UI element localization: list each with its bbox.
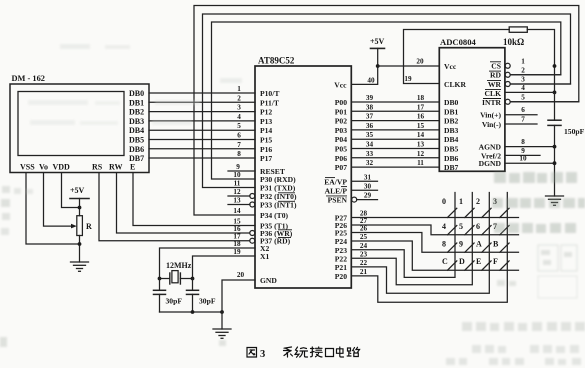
svg-text:10: 10	[519, 155, 527, 163]
keypad key labels row 2	[442, 222, 497, 231]
EA/VP stub U1 pin 31	[351, 180, 377, 182]
PSEN stub U1 pin 29	[357, 199, 378, 201]
svg-text:2: 2	[237, 94, 241, 102]
svg-text:10kΩ: 10kΩ	[503, 37, 524, 47]
U2 right pin numbers	[519, 57, 527, 162]
wire DB3 LCD to U1 pin 4	[149, 120, 255, 122]
svg-text:4: 4	[442, 222, 446, 231]
svg-text:P24: P24	[335, 237, 347, 246]
svg-text:P12: P12	[260, 108, 272, 117]
wire DB4 LCD to U1 pin 5	[149, 129, 255, 131]
svg-text:8: 8	[521, 138, 525, 146]
svg-text:Vcc: Vcc	[444, 62, 457, 71]
svg-text:6: 6	[521, 106, 525, 114]
keypad key E switch	[482, 261, 491, 270]
wire VSS to potentiometer bottom	[26, 173, 80, 244]
svg-text:P03: P03	[335, 126, 347, 135]
potentiometer wiper arrowhead	[71, 224, 77, 229]
capacitor C1 30pF plates	[154, 289, 166, 291]
wire VDD to +5V node	[62, 173, 80, 208]
wire ADC INTR pin 5	[510, 101, 579, 103]
svg-text:32: 32	[366, 159, 374, 167]
RESET stub U1 pin 9	[228, 170, 255, 172]
junction dot AGND	[553, 145, 557, 149]
wire ADC CLK pin 4	[505, 91, 555, 93]
svg-text:1: 1	[237, 85, 241, 93]
LCD screen inner box	[18, 92, 124, 156]
svg-text:30pF: 30pF	[199, 297, 216, 306]
svg-text:P14: P14	[260, 126, 272, 135]
wire ADC Vcc pin 20	[378, 65, 440, 67]
crystal Y1 12MHz leads	[160, 278, 170, 280]
svg-text:INTR: INTR	[482, 98, 502, 107]
net P31/TXD to ADC WR (nested wire 2)	[203, 14, 571, 188]
capacitor C3 150pF top lead	[554, 92, 556, 120]
keypad key 7 switch	[500, 226, 509, 235]
wire P24 to keypad row 4	[351, 241, 518, 270]
svg-text:P00: P00	[335, 98, 347, 107]
junction dot rail / GND wire	[220, 310, 224, 314]
keypad key D switch	[465, 261, 474, 270]
svg-text:0: 0	[442, 197, 446, 206]
wire U1 Vcc pin 40 to +5V	[351, 48, 377, 84]
svg-text:Vcc: Vcc	[334, 80, 347, 89]
svg-text:P33 (INT1): P33 (INT1)	[260, 201, 297, 210]
svg-text:F: F	[493, 257, 498, 266]
wire data bus D7	[351, 166, 439, 168]
caption glyph 系	[284, 347, 293, 357]
svg-text:R: R	[86, 222, 92, 231]
svg-text:26: 26	[360, 225, 368, 233]
U1 overlines EA ALE/P PSEN	[325, 178, 347, 196]
U2 left pin names	[444, 62, 466, 172]
U1 left pin names	[260, 89, 297, 285]
wire data bus D0 U1 P00 to ADC DB0	[351, 101, 439, 103]
svg-text:37: 37	[366, 113, 374, 121]
caption glyph 路	[347, 347, 359, 356]
svg-text:7: 7	[521, 116, 525, 124]
wire resistor to CLK net vertical	[527, 30, 554, 93]
junction dot crystal right	[191, 277, 195, 281]
wire data bus D4	[351, 138, 439, 140]
U1 right pin names	[324, 80, 347, 281]
wire U1 GND pin 20 to ground	[222, 280, 255, 329]
svg-text:DB5: DB5	[129, 136, 144, 145]
svg-text:ADC0804: ADC0804	[440, 37, 477, 47]
ADC U2 ADC0804 body	[439, 48, 505, 172]
wire data bus D6	[351, 157, 439, 159]
svg-text:9: 9	[521, 147, 525, 155]
keypad key 8 switch	[448, 243, 457, 252]
wire P20 to keypad column 4	[351, 193, 507, 303]
keypad key 3 switch	[500, 208, 509, 217]
U1 right pin numbers	[360, 76, 375, 276]
junction dot CLK pin 4	[553, 91, 557, 95]
+5V supply symbol (ADC side)	[371, 47, 385, 49]
wire data bus D2	[351, 120, 439, 122]
keypad key 5 switch	[465, 226, 474, 235]
ADC CS active-low bubble pin 1	[505, 63, 510, 68]
capacitor C1 bottom lead	[159, 294, 161, 312]
wire P26 to keypad row 2	[351, 225, 518, 235]
svg-text:DB4: DB4	[129, 126, 144, 135]
svg-text:Vin(-): Vin(-)	[482, 120, 502, 129]
svg-text:19: 19	[233, 248, 241, 256]
oscillator ground rail	[160, 311, 223, 313]
svg-text:7: 7	[237, 141, 241, 149]
caption glyph 统	[295, 347, 308, 357]
junction dot C2 on rail	[191, 310, 195, 314]
svg-text:5: 5	[521, 93, 525, 101]
svg-text:CLK: CLK	[485, 89, 502, 98]
svg-text:9: 9	[236, 163, 240, 171]
svg-text:P05: P05	[335, 145, 347, 154]
P33/INT1 stub U1 pin 13	[228, 204, 250, 206]
keypad key labels row 4	[442, 257, 498, 266]
svg-text:DB3: DB3	[444, 126, 459, 135]
keypad key labels row 1	[442, 197, 497, 206]
svg-text:18: 18	[417, 94, 425, 102]
svg-text:4: 4	[521, 84, 525, 92]
wire P25 to keypad row 3	[351, 233, 518, 253]
svg-text:RS: RS	[92, 163, 103, 172]
svg-text:12: 12	[233, 188, 241, 196]
svg-text:DB6: DB6	[129, 145, 144, 154]
svg-text:14: 14	[233, 207, 241, 215]
svg-text:35: 35	[366, 131, 374, 139]
svg-text:6: 6	[237, 132, 241, 140]
svg-text:11: 11	[234, 180, 241, 188]
svg-text:20: 20	[237, 271, 245, 279]
svg-text:RW: RW	[109, 163, 123, 172]
svg-text:A: A	[476, 240, 482, 249]
wire data bus D1	[351, 110, 439, 112]
capacitor C2 30pF top lead	[192, 279, 194, 291]
caption figure number glyph 图	[247, 348, 257, 358]
wire RS to U1 pin 17	[99, 173, 255, 241]
svg-text:8: 8	[442, 240, 446, 249]
svg-text:30pF: 30pF	[166, 297, 183, 306]
ADC RD active-low bubble pin 2	[505, 72, 510, 77]
keypad key 1 switch	[465, 208, 474, 217]
U2 left pin numbers	[404, 58, 424, 168]
svg-text:40: 40	[367, 76, 375, 84]
svg-text:DB0: DB0	[129, 89, 144, 98]
svg-text:6: 6	[476, 222, 480, 231]
junction dot +5V / ADC Vcc	[376, 64, 380, 68]
svg-text:38: 38	[366, 103, 374, 111]
svg-text:30: 30	[364, 182, 372, 190]
wire data bus D3	[351, 129, 439, 131]
svg-text:1: 1	[521, 57, 525, 65]
capacitor C2 bottom lead	[192, 294, 194, 312]
keypad key 6 switch	[482, 226, 491, 235]
wire X2 to crystal left	[160, 248, 256, 279]
svg-text:B: B	[493, 240, 499, 249]
svg-text:P01: P01	[335, 107, 347, 116]
svg-text:1: 1	[459, 197, 463, 206]
ALE/P stub U1 pin 30	[351, 189, 377, 191]
svg-text:E: E	[476, 257, 481, 266]
LCD pin labels DB0-DB7	[129, 89, 144, 163]
wire ADC CLKR pin 19 to 10k resistor	[404, 30, 510, 84]
ground symbol below oscillator	[213, 329, 231, 338]
ADC INTR active-low bubble pin 5	[505, 99, 510, 104]
svg-text:23: 23	[360, 250, 368, 258]
svg-text:15: 15	[417, 122, 425, 130]
crystal Y1 plates	[169, 273, 171, 284]
svg-text:16: 16	[417, 113, 425, 121]
keypad key B switch	[500, 243, 509, 252]
svg-text:150pF: 150pF	[564, 127, 585, 136]
svg-text:22: 22	[360, 259, 368, 267]
svg-text:19: 19	[404, 75, 412, 83]
svg-text:2: 2	[476, 197, 480, 206]
wire ADC Vin+ pin 6 stub	[505, 114, 537, 116]
PSEN active-low bubble	[352, 197, 357, 202]
U1 left pin numbers	[233, 85, 244, 279]
svg-text:E: E	[130, 163, 135, 172]
svg-text:25: 25	[360, 233, 368, 241]
svg-text:P10/T: P10/T	[260, 89, 279, 98]
keypad key A switch	[482, 243, 491, 252]
svg-text:3: 3	[260, 349, 265, 360]
wire P22 to keypad column 2	[351, 193, 472, 285]
svg-text:X1: X1	[260, 252, 269, 261]
svg-text:DB5: DB5	[444, 145, 459, 154]
+5V supply symbol (LCD side)	[70, 198, 89, 200]
svg-text:DB2: DB2	[129, 108, 144, 117]
svg-text:Vin(+): Vin(+)	[480, 111, 501, 120]
wire DB6 LCD to U1 pin 7	[149, 148, 255, 150]
wire P21 to keypad column 3	[351, 193, 489, 294]
svg-text:DB1: DB1	[129, 98, 144, 107]
svg-text:CS: CS	[491, 61, 501, 70]
svg-text:36: 36	[366, 122, 374, 130]
svg-text:39: 39	[366, 94, 374, 102]
svg-text:5: 5	[459, 222, 463, 231]
svg-text:24: 24	[360, 242, 368, 250]
wire DB0 LCD to U1 pin 1	[149, 92, 255, 94]
svg-text:3: 3	[521, 76, 525, 84]
net P30/RXD to ADC RD (nested wire 3)	[212, 22, 561, 179]
wire ADC Vref/2 pin 9 stub	[505, 154, 540, 156]
svg-text:GND: GND	[260, 276, 277, 285]
caption glyph 口	[326, 349, 334, 357]
wire Vo to potentiometer wiper	[44, 173, 73, 226]
svg-text:DM - 162: DM - 162	[12, 74, 46, 83]
svg-text:P21: P21	[335, 263, 347, 272]
caption glyph 接	[311, 347, 323, 357]
junction dot VDD/+5V/pot	[78, 206, 82, 210]
capacitor C1 30pF top lead	[159, 279, 161, 291]
svg-text:P17: P17	[260, 154, 272, 163]
keypad key F switch	[500, 261, 509, 270]
LCD bottom pin labels VSS Vo VDD RS RW E	[20, 163, 135, 172]
svg-text:5: 5	[237, 122, 241, 130]
svg-text:P02: P02	[335, 117, 347, 126]
junction dot on CLK net (upper)	[553, 64, 557, 68]
svg-text:9: 9	[459, 240, 463, 249]
U2 overlines CS RD WR CLK INTR	[483, 62, 501, 99]
svg-text:DB0: DB0	[444, 98, 459, 107]
svg-text:DB7: DB7	[444, 163, 459, 172]
keypad key 2 switch	[482, 208, 491, 217]
wire ADC AGND pin 8	[505, 146, 555, 148]
wire P27 keypad row 1	[351, 217, 518, 219]
potentiometer R body	[77, 216, 83, 236]
wire ADC WR pin 3	[510, 83, 570, 85]
wire X1 to crystal right	[193, 256, 256, 279]
svg-text:31: 31	[364, 173, 372, 181]
svg-text:+5V: +5V	[370, 37, 385, 46]
svg-text:29: 29	[364, 192, 372, 200]
svg-text:DB3: DB3	[129, 117, 144, 126]
svg-text:11: 11	[417, 159, 424, 167]
svg-text:P34 (T0): P34 (T0)	[260, 211, 289, 220]
wire DB1 LCD to U1 pin 2	[149, 101, 255, 103]
svg-text:RD: RD	[490, 71, 501, 80]
svg-text:18: 18	[233, 240, 241, 248]
crystal Y1 body	[172, 271, 178, 283]
svg-text:13: 13	[233, 197, 241, 205]
wire ADC RD pin 2	[510, 74, 561, 76]
wire DB2 LCD to U1 pin 3	[149, 111, 255, 113]
svg-text:P07: P07	[335, 163, 347, 172]
svg-text:P04: P04	[335, 135, 347, 144]
U1 overlines INT0 INT1 WR RD	[278, 193, 295, 238]
svg-text:VSS: VSS	[20, 163, 35, 172]
svg-text:DB1: DB1	[444, 107, 459, 116]
svg-text:P20: P20	[335, 272, 347, 281]
P32/INT0 stub U1 pin 12	[228, 195, 250, 197]
keypad key labels row 3	[442, 240, 499, 249]
net P34/T0 to ADC INTR (nested wire 1 outermost)	[194, 6, 579, 216]
wire E to U1 pin 15	[133, 173, 255, 226]
wire data bus D5	[351, 148, 439, 150]
keypad key 9 switch	[465, 243, 474, 252]
wire ADC DGND pin 10	[505, 162, 555, 164]
svg-text:ALE/P: ALE/P	[325, 186, 348, 195]
wire DB7 LCD to U1 pin 8	[149, 157, 255, 159]
svg-text:AGND: AGND	[479, 143, 502, 152]
keypad key 4 switch	[448, 226, 457, 235]
svg-text:DB6: DB6	[444, 154, 459, 163]
wire RW to U1 pin 16	[117, 173, 256, 233]
P36 active-low bubble	[250, 231, 255, 236]
potentiometer R bottom lead	[79, 236, 81, 263]
svg-text:WR: WR	[488, 80, 502, 89]
svg-text:13: 13	[417, 141, 425, 149]
keypad key C switch	[448, 261, 457, 270]
ground symbol below ADC	[546, 196, 564, 205]
svg-text:4: 4	[237, 113, 241, 121]
svg-text:P15: P15	[260, 136, 272, 145]
svg-text:P16: P16	[260, 145, 272, 154]
svg-text:21: 21	[360, 268, 368, 276]
P37 active-low bubble	[250, 238, 255, 243]
junction dot pot bottom / VSS	[78, 242, 82, 246]
svg-text:AT89C52: AT89C52	[258, 56, 295, 66]
svg-text:P06: P06	[335, 154, 347, 163]
caption glyph 电	[337, 347, 344, 357]
ground symbol below potentiometer	[71, 262, 89, 271]
svg-text:DGND: DGND	[479, 159, 502, 168]
svg-text:PSEN: PSEN	[328, 196, 348, 205]
svg-text:20: 20	[416, 58, 424, 66]
svg-text:DB2: DB2	[444, 117, 459, 126]
svg-text:CLKR: CLKR	[444, 80, 466, 89]
svg-text:P11/T: P11/T	[260, 98, 279, 107]
junction dot crystal left	[158, 277, 162, 281]
resistor R1 10k body	[509, 27, 527, 32]
wire DB5 LCD to U1 pin 6	[149, 139, 255, 141]
svg-text:D: D	[459, 257, 465, 266]
svg-text:17: 17	[417, 103, 425, 111]
svg-text:DB4: DB4	[444, 135, 459, 144]
svg-text:33: 33	[366, 150, 374, 158]
wire P23 to keypad column 1	[351, 193, 455, 278]
svg-text:14: 14	[417, 131, 425, 139]
capacitor C3 150pF plates	[548, 119, 561, 121]
svg-text:EA/VP: EA/VP	[324, 177, 347, 186]
svg-text:34: 34	[366, 141, 374, 149]
P33 active-low bubble	[250, 202, 255, 207]
LCD module DM-162 outer box	[10, 84, 149, 173]
P32 active-low bubble	[250, 194, 255, 199]
junction dot DGND	[553, 161, 557, 165]
U2 right pin names	[479, 61, 502, 168]
wire ADC Vin- pin 7 stub	[505, 123, 537, 125]
ADC WR active-low bubble pin 3	[505, 82, 510, 87]
microcontroller U1 AT89C52 body	[255, 66, 351, 288]
keypad key 0 switch	[448, 208, 457, 217]
svg-text:Vo: Vo	[39, 163, 48, 172]
svg-text:C: C	[442, 257, 448, 266]
svg-text:8: 8	[237, 150, 241, 158]
svg-text:12MHz: 12MHz	[166, 261, 192, 270]
svg-text:10: 10	[233, 171, 241, 179]
capacitor C2 30pF plates	[187, 289, 199, 291]
svg-text:2: 2	[521, 66, 525, 74]
svg-text:VDD: VDD	[53, 163, 71, 172]
capacitor C3 bottom lead to ground	[554, 125, 556, 196]
svg-text:+5V: +5V	[70, 186, 85, 195]
svg-text:P13: P13	[260, 117, 272, 126]
svg-text:12: 12	[417, 150, 425, 158]
svg-text:3: 3	[237, 104, 241, 112]
